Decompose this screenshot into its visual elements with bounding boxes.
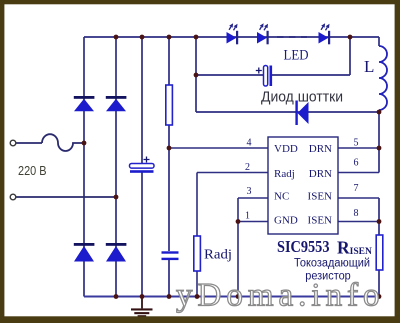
diode D4 (bridge, bottom-right) — [106, 243, 127, 262]
wire: pin 7 ISEN — [338, 197, 379, 199]
wire: AC input 1 — [16, 142, 42, 144]
wire: pin 8 ISEN — [338, 221, 379, 223]
wire: pin 3 NC — [238, 198, 268, 297]
svg-text:VDD: VDD — [274, 143, 298, 155]
wire: DRN net vertical — [378, 110, 380, 173]
fuse F — [42, 134, 84, 151]
svg-text:NC: NC — [274, 191, 289, 203]
wire: bridge right vertical — [115, 37, 117, 297]
wire: pin 6 DRN — [338, 172, 379, 174]
wire: pin 2 Radj — [197, 173, 268, 297]
IC U1 pin numbers 1-8 — [245, 138, 359, 222]
svg-text:GND: GND — [274, 215, 298, 227]
svg-text:LED: LED — [284, 48, 309, 64]
svg-text:ISEN: ISEN — [308, 191, 333, 203]
resistor Radj — [194, 236, 201, 271]
IC U1 pin name labels — [274, 143, 332, 227]
svg-text:SIC9553: SIC9553 — [277, 237, 330, 256]
svg-text:5: 5 — [354, 138, 359, 149]
svg-text:ISEN: ISEN — [308, 215, 333, 227]
wire: node to output cap and schottky — [195, 37, 197, 112]
svg-text:2: 2 — [245, 162, 250, 173]
inductor L coil — [379, 46, 387, 110]
junction dots (all nets) — [82, 35, 382, 299]
border frame — [0, 0, 400, 4]
wire: top rail — [84, 36, 379, 38]
svg-text:4: 4 — [247, 138, 252, 149]
svg-text:Токозадающий: Токозадающий — [294, 258, 370, 270]
schottky diode VD — [295, 101, 308, 126]
svg-text:Radj: Radj — [204, 247, 232, 262]
wire: schottky horizontal — [196, 111, 379, 113]
svg-text:L: L — [364, 57, 374, 76]
svg-text:8: 8 — [354, 208, 359, 219]
svg-text:1: 1 — [245, 211, 250, 222]
diode D1 (bridge, top-left) — [74, 96, 95, 111]
wire: output cap horizontal — [196, 37, 350, 75]
svg-text:DRN: DRN — [309, 143, 332, 155]
wire: inductor branch — [378, 37, 380, 46]
wire: AC input 2 — [16, 196, 116, 198]
svg-text:3: 3 — [247, 186, 252, 197]
terminal input 2 — [10, 194, 16, 200]
wire: bridge left vertical — [83, 37, 85, 297]
svg-text:yDoma.info: yDoma.info — [176, 278, 385, 314]
LED 3 — [319, 23, 331, 44]
svg-text:Диод шоттки: Диод шоттки — [261, 90, 343, 106]
wire: bottom rail — [84, 296, 379, 298]
svg-text:7: 7 — [354, 183, 359, 194]
resistor RISEN — [376, 235, 383, 270]
capacitor C1 (bulk electrolytic, +) — [130, 157, 155, 173]
capacitor C3 (VDD bypass) — [162, 251, 179, 260]
LED 1 — [227, 23, 239, 44]
resistor R1 (startup) — [166, 85, 173, 125]
wire: pin 1 GND — [238, 221, 268, 223]
diode D2 (bridge, top-right) — [106, 96, 127, 111]
svg-text:220 В: 220 В — [18, 163, 47, 178]
wire: pin 5 DRN — [338, 147, 379, 149]
svg-text:Radj: Radj — [274, 168, 295, 180]
svg-text:DRN: DRN — [309, 168, 332, 180]
wire: bulk cap vertical — [141, 37, 143, 297]
capacitor C2 (output electrolytic, +) — [256, 66, 272, 87]
wire: LED string dashed segment — [277, 36, 307, 38]
wire: startup resistor vertical — [168, 37, 170, 297]
diode D3 (bridge, bottom-left) — [74, 243, 95, 262]
ground symbol — [131, 297, 153, 318]
wire: pin 4 VDD — [169, 147, 268, 149]
wire: ISEN net vertical — [378, 198, 380, 297]
terminal input 1 — [10, 140, 16, 146]
LED 2 — [257, 23, 269, 44]
svg-text:6: 6 — [354, 158, 359, 169]
IC U1 SIC9553 box — [268, 137, 338, 234]
